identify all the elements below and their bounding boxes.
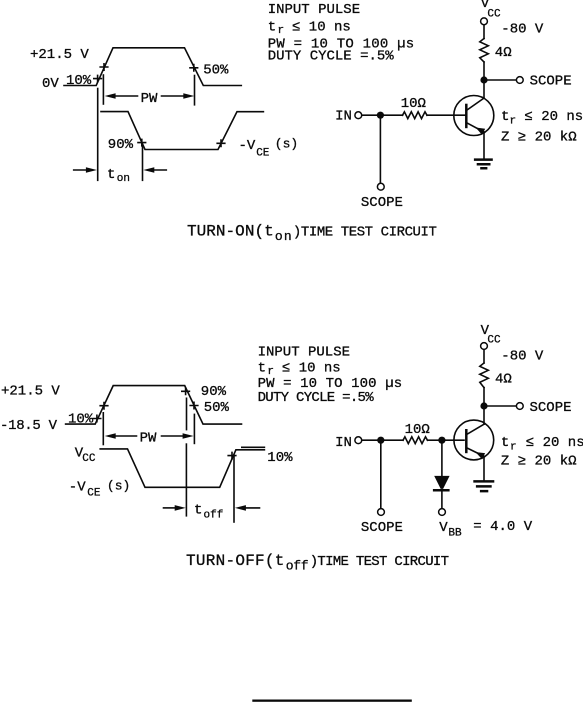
svg-text:50%: 50% xyxy=(204,400,230,416)
wire node to scope terminal xyxy=(488,79,516,81)
transistor Q1 base bar xyxy=(465,104,468,129)
svg-text:t: t xyxy=(501,435,509,451)
t_off left arrow xyxy=(164,507,177,509)
ground 2 xyxy=(473,481,494,491)
input pulse waveform 1 xyxy=(64,48,241,86)
wire resistor to node 2 xyxy=(483,388,485,403)
svg-text:(s): (s) xyxy=(107,479,130,494)
terminal VBB xyxy=(439,509,446,516)
wire junction to scope 2 xyxy=(380,444,382,508)
terminal VCC 1 xyxy=(481,18,488,25)
t_off right arrow xyxy=(235,505,246,511)
terminal VCC 2 xyxy=(481,343,488,350)
transistor Q2 emitter diagonal xyxy=(466,448,484,457)
transistor Q1 collector diagonal xyxy=(466,98,484,110)
wire IN to junction 2 xyxy=(362,439,377,441)
svg-text:50%: 50% xyxy=(203,62,229,78)
transistor Q1 PNP emitter arrow xyxy=(476,128,486,135)
svg-text:INPUT PULSE: INPUT PULSE xyxy=(258,345,350,361)
resistor R3 4 ohm xyxy=(480,363,489,388)
10% level reference line xyxy=(242,446,265,448)
svg-text:r: r xyxy=(510,442,517,454)
output waveform 2 (VCC/-VCE) xyxy=(100,449,264,487)
terminal SCOPE collector 1 xyxy=(516,77,523,84)
svg-text:Z ≥ 20 kΩ: Z ≥ 20 kΩ xyxy=(501,130,577,146)
svg-text:DUTY CYCLE =.5%: DUTY CYCLE =.5% xyxy=(258,390,375,406)
svg-text:0V: 0V xyxy=(42,76,59,92)
ground 1 xyxy=(474,160,493,169)
svg-text:-V: -V xyxy=(239,138,256,154)
PW left arrow xyxy=(105,93,116,99)
svg-text:t: t xyxy=(258,360,266,376)
svg-text:4Ω: 4Ω xyxy=(495,45,512,61)
wire diode to VBB terminal xyxy=(441,491,443,509)
test circuit 2 (turn-off) xyxy=(335,323,583,540)
PW left arrow 2 xyxy=(105,433,116,439)
wire emitter to ground 2 xyxy=(483,456,485,480)
svg-text:≤ 10 ns: ≤ 10 ns xyxy=(282,360,341,376)
wire diode junction to diode xyxy=(441,444,443,476)
svg-text:CC: CC xyxy=(487,9,501,21)
svg-text:10%: 10% xyxy=(68,411,94,427)
svg-text:PW: PW xyxy=(141,91,158,107)
svg-text:-18.5 V: -18.5 V xyxy=(0,418,58,434)
wire node to collector 2 xyxy=(483,410,485,425)
svg-text:t: t xyxy=(107,167,115,183)
terminal SCOPE input 1 xyxy=(377,183,384,190)
PW dimension left boundary xyxy=(102,75,104,104)
tick 90% output falling edge xyxy=(138,139,146,145)
transistor Q2 PNP emitter arrow xyxy=(476,452,486,459)
svg-text:10Ω: 10Ω xyxy=(405,422,430,438)
t_off dimension right boundary xyxy=(233,455,235,522)
svg-text:SCOPE: SCOPE xyxy=(530,73,572,89)
transistor Q2 base bar xyxy=(465,429,468,453)
PW right arrow 2 xyxy=(162,435,186,437)
tick 50% rising edge 2 xyxy=(100,403,108,409)
svg-text:t: t xyxy=(194,502,202,518)
node input junction 1 xyxy=(377,112,384,119)
wire emitter to ground xyxy=(483,132,485,159)
svg-text:TURN-ON(t: TURN-ON(t xyxy=(187,223,274,241)
svg-text:Z ≥ 20 kΩ: Z ≥ 20 kΩ xyxy=(501,454,577,470)
wire node to collector xyxy=(483,84,485,99)
svg-text:-80 V: -80 V xyxy=(501,348,544,364)
wire junction to scope 1 xyxy=(379,119,381,183)
terminal IN 1 xyxy=(355,112,362,119)
svg-text:SCOPE: SCOPE xyxy=(361,520,403,536)
svg-text:≤ 10 ns: ≤ 10 ns xyxy=(292,20,351,36)
svg-text:≤ 20 ns: ≤ 20 ns xyxy=(524,109,583,125)
svg-text:= 4.0 V: = 4.0 V xyxy=(473,519,532,535)
PW dimension left boundary 2 xyxy=(102,413,104,445)
svg-text:+21.5 V: +21.5 V xyxy=(1,383,60,399)
svg-text:90%: 90% xyxy=(201,384,227,400)
t_off dimension left boundary xyxy=(185,444,187,516)
svg-text:(s): (s) xyxy=(275,137,298,152)
resistor R4 10 ohm xyxy=(403,437,428,444)
node collector junction 1 xyxy=(480,76,487,83)
input pulse spec text block 1 xyxy=(268,2,415,64)
svg-text:TURN-OFF(t: TURN-OFF(t xyxy=(186,552,284,570)
transistor Q1 emitter diagonal xyxy=(466,123,484,132)
wire diode junction to base xyxy=(446,439,465,441)
svg-text:CE: CE xyxy=(87,488,101,500)
test circuit 1 (turn-on) xyxy=(335,0,583,211)
caption TURN-ON time test circuit xyxy=(187,223,437,244)
terminal SCOPE collector 2 xyxy=(516,403,523,410)
svg-text:10%: 10% xyxy=(267,450,293,466)
tick 50% falling edge 2 xyxy=(190,402,198,408)
svg-text:+21.5 V: +21.5 V xyxy=(30,47,89,63)
svg-text:4Ω: 4Ω xyxy=(495,372,512,388)
resistor R1 4 ohm xyxy=(480,39,489,63)
svg-text:DUTY CYCLE =.5%: DUTY CYCLE =.5% xyxy=(268,48,395,64)
waveform diagram 1 (turn-on) xyxy=(30,47,298,185)
svg-text:CE: CE xyxy=(256,147,270,159)
svg-text:off: off xyxy=(204,509,224,521)
transistor Q2 circle xyxy=(454,420,494,460)
svg-text:-V: -V xyxy=(69,479,86,495)
node input junction 2 xyxy=(377,437,384,444)
svg-text:INPUT PULSE: INPUT PULSE xyxy=(268,2,360,18)
PW right arrow xyxy=(162,95,187,97)
input pulse spec text block 2 xyxy=(258,345,403,407)
svg-text:CC: CC xyxy=(82,453,96,465)
bottom rule xyxy=(252,700,411,702)
svg-text:10%: 10% xyxy=(66,73,92,89)
svg-text:90%: 90% xyxy=(108,137,134,153)
terminal IN 2 xyxy=(355,437,362,444)
transistor Q1 circle xyxy=(454,96,494,136)
node diode junction xyxy=(438,437,445,444)
t_on dimension right boundary xyxy=(142,146,144,181)
svg-text:t: t xyxy=(501,109,509,125)
svg-text:r: r xyxy=(510,116,517,128)
90% point vertical upper xyxy=(186,398,188,429)
PW dimension right boundary 2 xyxy=(193,414,195,443)
svg-text:)TIME TEST CIRCUIT: )TIME TEST CIRCUIT xyxy=(310,554,449,570)
t_on dimension left boundary xyxy=(97,89,99,181)
svg-text:)TIME TEST CIRCUIT: )TIME TEST CIRCUIT xyxy=(293,225,437,241)
wire resistor to diode junction xyxy=(428,439,439,441)
svg-text:SCOPE: SCOPE xyxy=(361,195,403,211)
diode CR1 xyxy=(434,476,449,489)
tick 50% rising edge xyxy=(100,64,108,70)
input pulse waveform 2 xyxy=(66,386,242,425)
svg-text:V: V xyxy=(439,520,448,536)
svg-text:BB: BB xyxy=(448,528,462,540)
terminal SCOPE input 2 xyxy=(378,509,385,516)
output waveform 1 (-VCE) xyxy=(101,112,263,150)
svg-text:IN: IN xyxy=(335,435,352,451)
tick 50% falling edge xyxy=(190,65,198,71)
svg-text:-80 V: -80 V xyxy=(501,22,544,38)
transistor Q2 collector diagonal xyxy=(466,424,484,435)
caption TURN-OFF time test circuit xyxy=(186,552,449,573)
wire IN to junction xyxy=(362,114,377,116)
wire VCC to resistor xyxy=(483,25,485,38)
wire resistor to node xyxy=(483,62,485,76)
svg-text:PW: PW xyxy=(140,430,157,446)
t_on left arrow xyxy=(74,169,88,171)
svg-text:≤ 20 ns: ≤ 20 ns xyxy=(526,435,583,451)
diode CR1 cathode bar xyxy=(433,489,450,492)
waveform diagram 2 (turn-off) xyxy=(0,383,293,522)
tick 10% rising edge xyxy=(94,75,102,81)
node collector junction 2 xyxy=(480,402,487,409)
wire VCC to resistor 2 xyxy=(483,350,485,363)
PW dimension right boundary xyxy=(194,76,196,105)
tick 10% rising edge 2 xyxy=(93,415,101,421)
wire junction to resistor xyxy=(384,114,403,116)
svg-text:IN: IN xyxy=(335,109,352,125)
svg-text:off: off xyxy=(286,558,309,573)
svg-text:10Ω: 10Ω xyxy=(401,96,426,112)
svg-text:on: on xyxy=(275,229,292,244)
svg-text:SCOPE: SCOPE xyxy=(530,400,572,416)
wire junction to resistor 2 xyxy=(384,439,403,441)
t_on right arrow xyxy=(143,167,154,173)
svg-text:CC: CC xyxy=(487,335,501,347)
wire resistor to base xyxy=(427,114,465,116)
resistor R2 10 ohm xyxy=(403,112,428,119)
svg-text:t: t xyxy=(268,20,276,36)
tick 10% output rising edge xyxy=(228,452,236,458)
tick 90% falling edge 2 xyxy=(182,388,190,394)
wire node to scope terminal 2 xyxy=(488,405,516,407)
tick output rising edge xyxy=(217,140,225,146)
svg-text:on: on xyxy=(117,173,130,185)
